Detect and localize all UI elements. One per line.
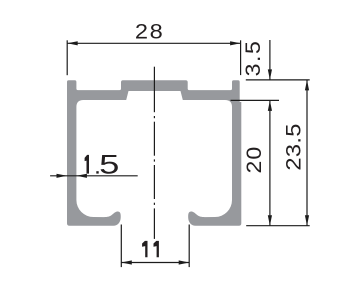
extension line profile top right (246, 79, 310, 81)
label 1.5 decimal point (96, 171, 98, 173)
arrow 28 right (230, 41, 241, 45)
arrow 11 left (121, 260, 132, 264)
dim 28 extension line right (240, 40, 242, 75)
arrow 28 left (67, 41, 78, 45)
svg-text:3.5: 3.5 (241, 40, 265, 77)
dim 11 extension line right (188, 225, 190, 268)
arrow 20 down (268, 215, 272, 226)
rail profile cross-section (extruded aluminium track body) (67, 80, 241, 226)
dim 11 line (121, 262, 189, 264)
dim 1.5 line (50, 175, 138, 177)
svg-text:23.5: 23.5 (281, 123, 305, 170)
arrow 1.5 left-pointing (76, 174, 87, 178)
dim 28 line (67, 42, 240, 44)
arrow 20 up (268, 100, 272, 111)
label 11 first digit one (142, 241, 147, 257)
arrow 3.5 down (268, 69, 272, 80)
arrow 23.5 down (305, 215, 309, 226)
centerline (vertical dash-dot axis) (153, 67, 155, 113)
arrow 11 right (179, 260, 190, 264)
dim 11 extension line left (120, 225, 122, 268)
extension line profile bottom right (246, 225, 310, 227)
arrow 23.5 up (305, 80, 309, 91)
svg-text:20: 20 (242, 146, 266, 174)
dim 28 extension line left (66, 40, 68, 75)
svg-text:5: 5 (99, 149, 119, 179)
arrow 1.5 right-pointing (57, 174, 68, 178)
extension line 3.5 below top (231, 99, 280, 101)
label 1.5 digit one (85, 155, 89, 174)
dim 3.5 leader line upper (269, 40, 271, 80)
svg-text:28: 28 (135, 20, 164, 44)
dim 23.5 line (306, 80, 308, 226)
label 11 second digit one (154, 241, 159, 257)
dim 20 line (269, 100, 271, 225)
